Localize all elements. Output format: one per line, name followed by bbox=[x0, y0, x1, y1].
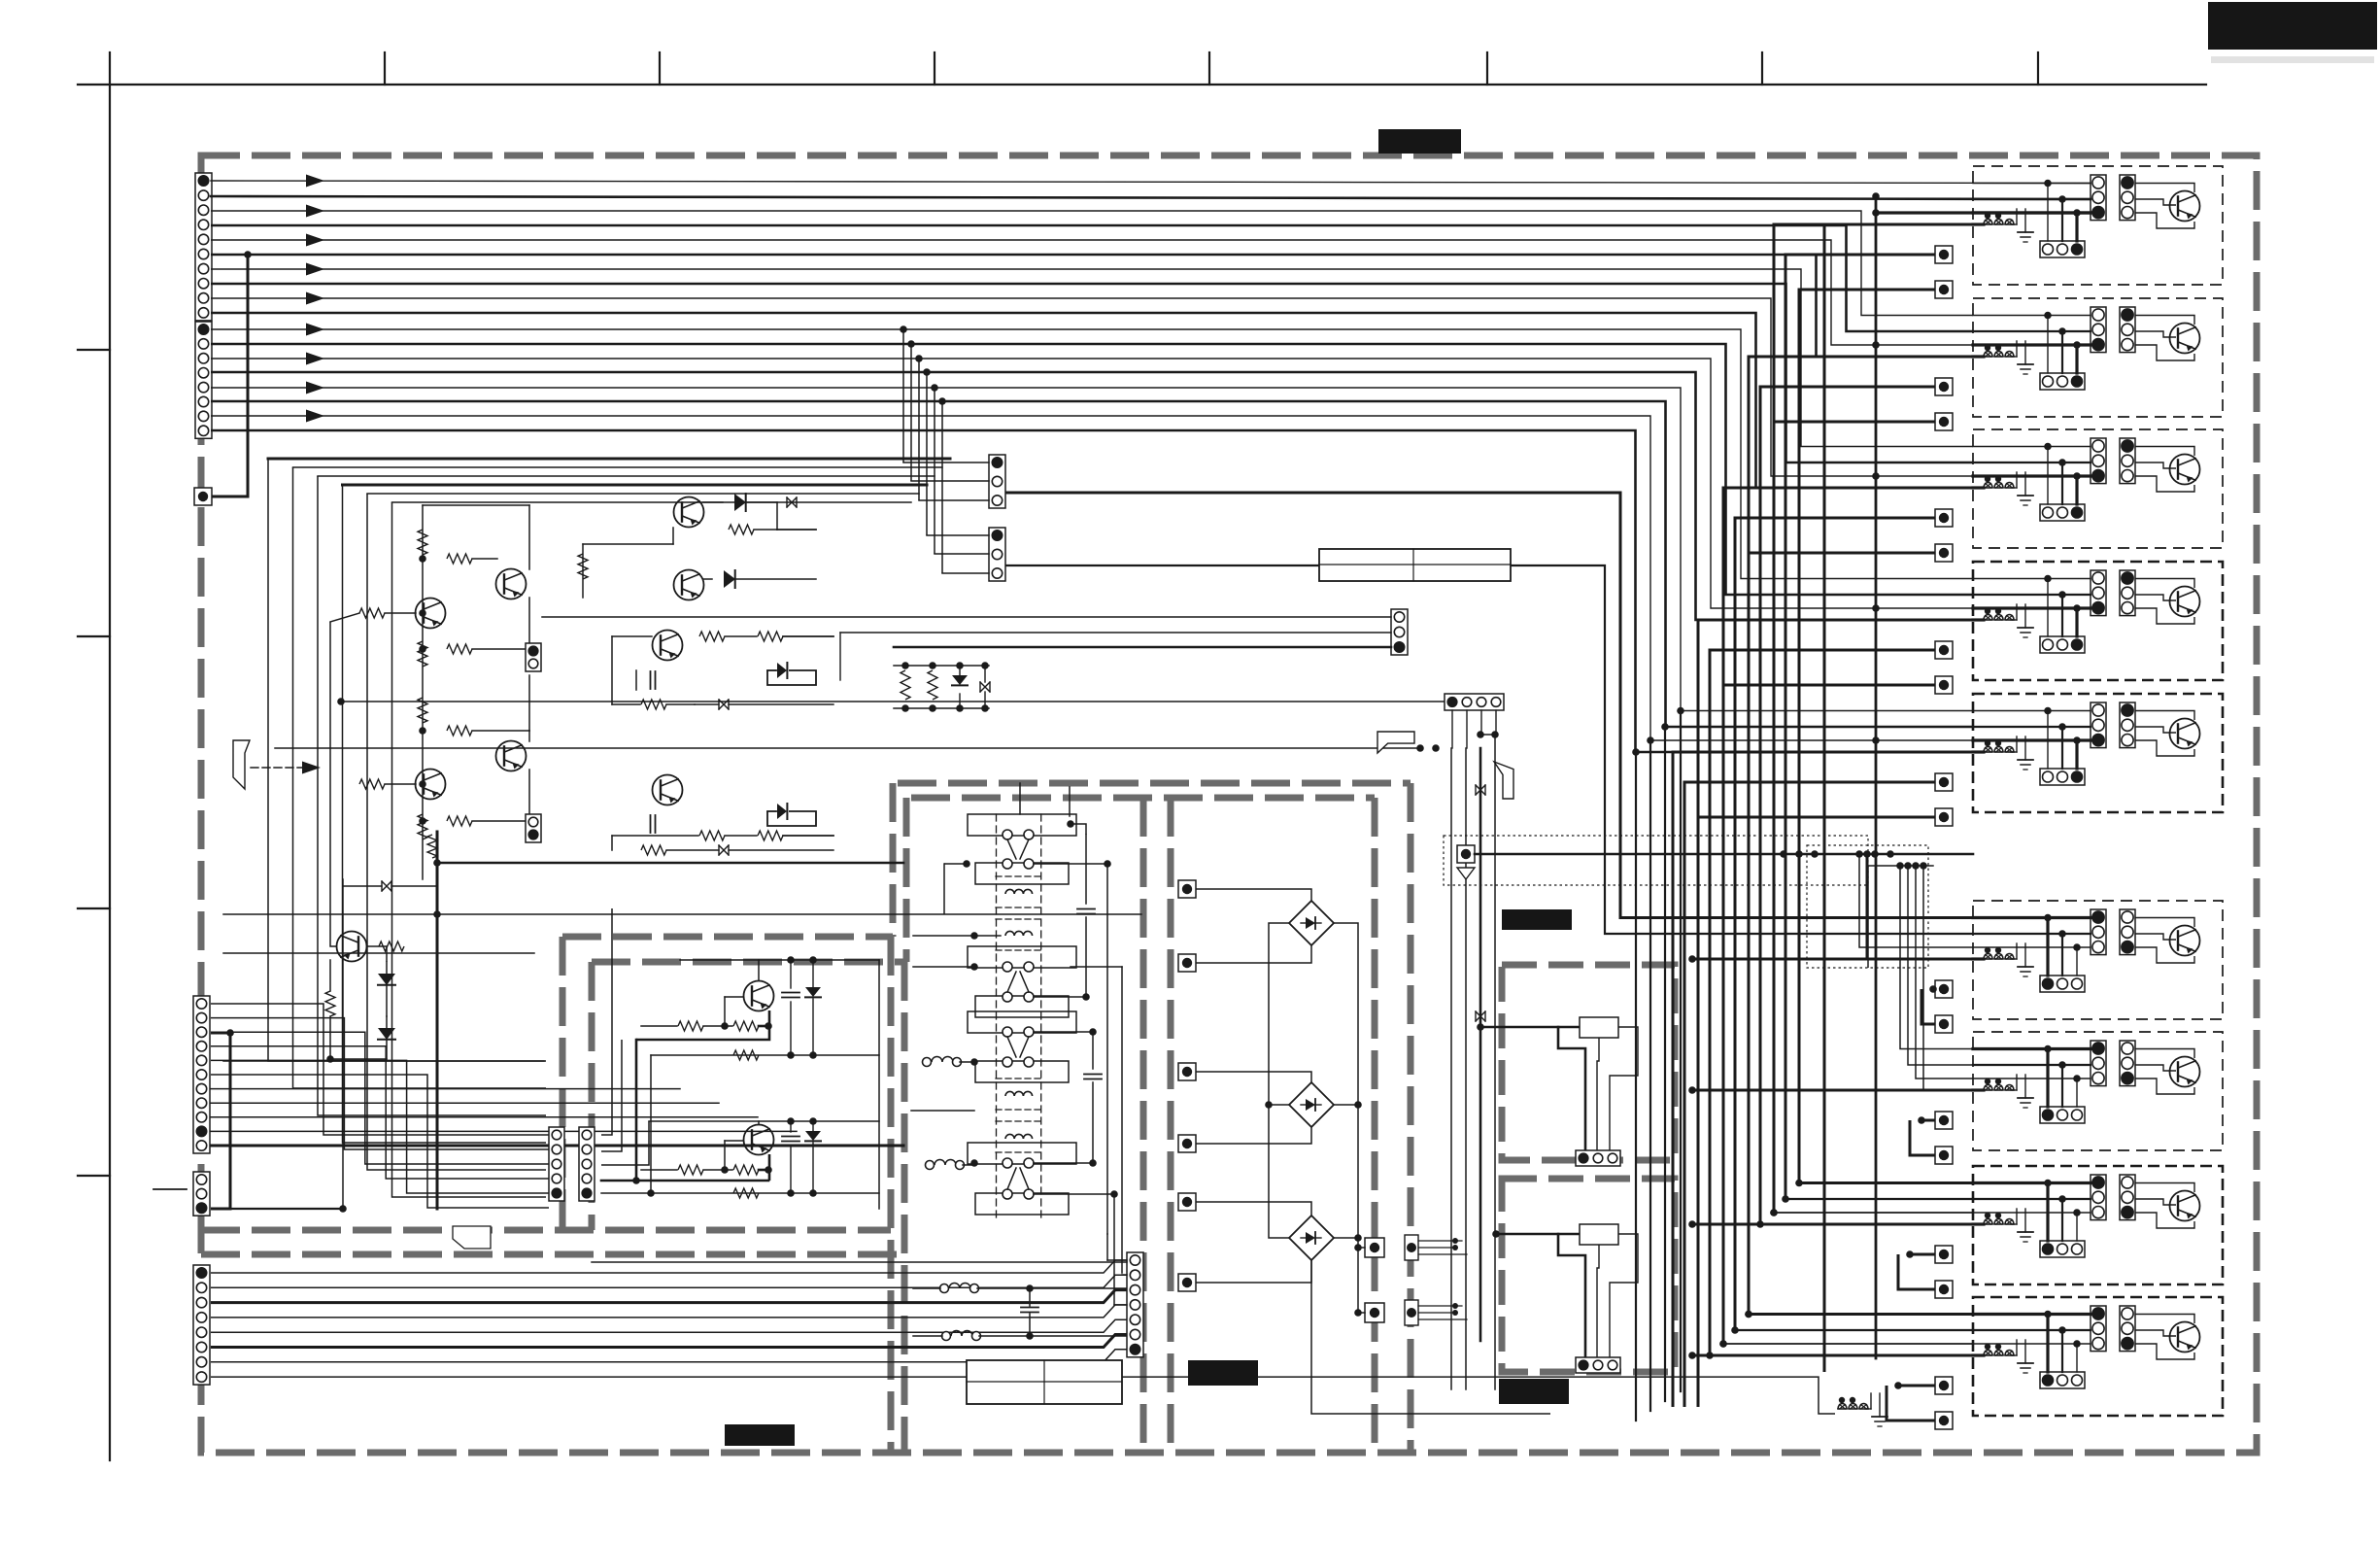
wire bbox=[934, 388, 935, 554]
wire bbox=[1085, 917, 1087, 997]
transistor Q7 bbox=[674, 570, 704, 600]
wire bottom row8 bbox=[211, 1377, 1835, 1414]
wire bbox=[2047, 447, 2049, 505]
node bbox=[433, 910, 441, 918]
node bbox=[970, 1159, 978, 1167]
varistor V3 bbox=[719, 845, 729, 855]
node bbox=[1795, 1180, 1803, 1187]
wire bbox=[767, 670, 816, 685]
node bbox=[2058, 1326, 2066, 1334]
connector B4-A bbox=[2091, 570, 2106, 616]
wire bbox=[230, 1208, 343, 1210]
node bbox=[1632, 748, 1640, 756]
wire main bus x=1931 bbox=[1875, 196, 1878, 1358]
wire bbox=[1610, 1234, 1638, 1360]
wire bbox=[759, 1169, 768, 1172]
connector CN10 2pin bbox=[526, 814, 541, 842]
transistor Q4 bbox=[416, 770, 446, 800]
wire rail bbox=[680, 959, 879, 961]
wire bbox=[1973, 486, 1984, 489]
wire CN3 row3 bbox=[211, 1032, 549, 1164]
wire bbox=[1196, 1127, 1311, 1144]
wire vertical thick bbox=[1479, 748, 1482, 1341]
wire CN3 row4 bbox=[211, 1046, 549, 1179]
wire bbox=[1069, 787, 1071, 816]
node bbox=[419, 780, 426, 788]
wire feed block bbox=[1749, 1313, 1973, 1316]
node bbox=[1918, 1116, 1925, 1124]
power transistor Q-B3 bbox=[2170, 455, 2200, 485]
wire bus row14 staircase bbox=[211, 372, 1973, 620]
wire bbox=[318, 475, 935, 477]
connector sq B7-1 bbox=[1935, 1112, 1953, 1129]
node bbox=[339, 1205, 347, 1213]
wire bbox=[385, 783, 416, 785]
wire gnd feed bbox=[1692, 1089, 1984, 1092]
wire bbox=[2061, 934, 2063, 976]
wire bbox=[913, 1335, 942, 1337]
node bbox=[1782, 1195, 1789, 1203]
wire drop to block7 bbox=[1900, 866, 1973, 1049]
connector B8-C bbox=[2040, 1241, 2085, 1257]
wire bbox=[528, 598, 530, 649]
node bbox=[1067, 820, 1074, 828]
node bbox=[433, 859, 441, 867]
diode D5 bbox=[777, 663, 787, 678]
wire long bus bbox=[1680, 711, 1682, 1392]
wire sq link a bbox=[1735, 518, 1935, 1330]
node bbox=[419, 645, 426, 653]
connector B5-B bbox=[2120, 702, 2135, 748]
ferrite beads B3 bbox=[1984, 483, 1992, 489]
transistor Q2 bbox=[416, 599, 446, 629]
wire bbox=[1973, 183, 2091, 185]
resistor R7 bbox=[447, 726, 472, 736]
connector sq B6-2 bbox=[1935, 1015, 1953, 1033]
wire bbox=[2135, 1199, 2176, 1205]
wire bbox=[1973, 946, 2091, 948]
wire sq link b bbox=[1774, 422, 1935, 1213]
node bbox=[2058, 930, 2066, 938]
node bbox=[1647, 736, 1654, 744]
node bbox=[1855, 850, 1863, 858]
node bbox=[1839, 1397, 1845, 1403]
wire bbox=[1495, 710, 1497, 735]
connector B2-C bbox=[2040, 373, 2085, 390]
wire long bus bbox=[1649, 740, 1651, 1411]
cap C7 bbox=[782, 1136, 799, 1138]
wire bbox=[2046, 918, 2049, 976]
node bbox=[1745, 1311, 1752, 1318]
connector B7-B bbox=[2120, 1041, 2135, 1086]
connector 3pin bbox=[1576, 1357, 1620, 1373]
left ruler tick 3 bbox=[78, 907, 110, 909]
wire bbox=[528, 770, 530, 821]
wire bbox=[1973, 315, 2091, 317]
label bottom-left box bbox=[725, 1424, 795, 1446]
wire bbox=[330, 613, 359, 622]
left ruler tick 1 bbox=[78, 349, 110, 351]
node bbox=[970, 1058, 978, 1066]
wire feed box A bbox=[1480, 1026, 1558, 1029]
transistor Q8 bbox=[653, 631, 683, 661]
connector sq R1 bbox=[1178, 880, 1196, 898]
wire bbox=[2135, 934, 2176, 940]
transistor Q1 bbox=[496, 569, 527, 599]
wire bbox=[1034, 996, 1086, 998]
connector B5-A bbox=[2091, 702, 2106, 748]
wire bbox=[472, 730, 529, 732]
power transistor Q-B6 bbox=[2170, 926, 2200, 956]
node bbox=[1985, 608, 1990, 614]
wire CN3 row11 bbox=[211, 1145, 903, 1147]
node bbox=[1265, 1101, 1273, 1109]
node bbox=[2058, 591, 2066, 599]
wire sq link b bbox=[1910, 1120, 1935, 1155]
node bbox=[2044, 1180, 2052, 1187]
wire bbox=[343, 885, 382, 887]
wire bbox=[2061, 1199, 2063, 1241]
wire bbox=[1196, 1202, 1311, 1216]
node bbox=[226, 1029, 234, 1037]
resistor R2 bbox=[447, 554, 472, 564]
node bbox=[1354, 1309, 1362, 1317]
inductor FL1 bbox=[923, 1058, 932, 1067]
wire feed block bbox=[1710, 1354, 1973, 1357]
wire bbox=[342, 879, 344, 1209]
power transistor Q-B2 bbox=[2170, 324, 2200, 354]
wire bbox=[1973, 726, 2091, 728]
connector sq B9-1 bbox=[1935, 1377, 1953, 1394]
ground bbox=[2011, 1354, 2017, 1356]
wire sq link a bbox=[1785, 255, 1935, 1199]
wire bbox=[2061, 331, 2063, 373]
connector sq B4-2 bbox=[1935, 676, 1953, 694]
wire from CN8 to block6 bbox=[1005, 565, 1973, 934]
wire bbox=[1973, 1212, 2091, 1214]
wire bbox=[329, 960, 331, 991]
wire bottom row5 bbox=[211, 1319, 1135, 1332]
node bbox=[931, 384, 938, 392]
wire bbox=[2061, 199, 2063, 241]
wire bbox=[759, 1025, 768, 1028]
wire bbox=[1597, 1245, 1599, 1360]
wire bbox=[2135, 711, 2194, 721]
node bbox=[1026, 1332, 1034, 1340]
resistor R27 bbox=[427, 835, 437, 858]
ruler tick 4 bbox=[934, 52, 935, 85]
wire bbox=[635, 670, 637, 690]
node bbox=[787, 1051, 795, 1059]
node bbox=[956, 704, 964, 712]
wire bbox=[472, 558, 497, 560]
wire bbox=[790, 960, 792, 988]
node bbox=[1477, 731, 1484, 738]
connector CN15 4pin bbox=[1445, 694, 1504, 710]
wire sq link b bbox=[1799, 290, 1935, 1183]
wire rail bbox=[651, 1054, 879, 1056]
wire bbox=[2135, 462, 2176, 468]
wire bbox=[2061, 595, 2063, 636]
node bbox=[1089, 1028, 1097, 1036]
wire long bus bbox=[1635, 752, 1637, 1421]
wire bbox=[1610, 1027, 1638, 1153]
outer board dashed box bbox=[201, 155, 2257, 1453]
wire bbox=[2135, 345, 2194, 360]
dotted region A bbox=[1444, 836, 1868, 885]
connector CN12 7pin bbox=[1127, 1252, 1143, 1357]
node bbox=[721, 1022, 729, 1030]
wire bridge right bus bbox=[1334, 923, 1358, 1313]
node bbox=[809, 1051, 817, 1059]
speaker block box B7 bbox=[1973, 1032, 2223, 1150]
ruler tick 6 bbox=[1486, 52, 1488, 85]
wire bbox=[636, 1010, 769, 1040]
wire bbox=[2046, 1315, 2049, 1373]
wire bbox=[423, 504, 529, 506]
node bbox=[2044, 1045, 2052, 1053]
wire bus row9 staircase bbox=[211, 298, 1973, 476]
wire bbox=[601, 1040, 622, 1151]
node bbox=[923, 368, 931, 376]
resistor R24 bbox=[733, 1050, 759, 1060]
node bbox=[647, 1189, 655, 1197]
dashed boundary v x=919 bbox=[890, 783, 897, 937]
wire sq link a bbox=[1760, 387, 1935, 1224]
wire bbox=[2075, 345, 2078, 373]
wire long lower bbox=[592, 1261, 1127, 1263]
wire bbox=[611, 836, 613, 850]
node bbox=[1688, 1220, 1696, 1228]
relay K3 contacts bbox=[968, 1011, 1076, 1033]
connector sq R5 bbox=[1178, 1193, 1196, 1211]
diode D1 bbox=[378, 974, 395, 985]
wire bbox=[963, 1164, 974, 1166]
wire bbox=[1973, 355, 1984, 358]
connector CN6 single pin bbox=[194, 488, 212, 505]
connector B3-C bbox=[2040, 504, 2085, 521]
wire bbox=[641, 1169, 677, 1171]
resistor R13 bbox=[729, 525, 754, 534]
note table T1 bbox=[1319, 549, 1511, 581]
node bbox=[1863, 850, 1871, 858]
connector B9-B bbox=[2120, 1306, 2135, 1352]
node bbox=[1354, 1234, 1362, 1242]
sub box B bbox=[1502, 1179, 1675, 1372]
callout flag F3 bbox=[1494, 762, 1513, 799]
ruler tick 2 bbox=[384, 52, 386, 85]
wire bbox=[223, 913, 1141, 915]
connector CN8 bbox=[989, 528, 1005, 581]
connector B2-B bbox=[2120, 307, 2135, 353]
wire bbox=[1973, 578, 2091, 580]
connector CN9 2pin bbox=[526, 643, 541, 671]
varistor V2 bbox=[719, 700, 729, 709]
ruler tick 7 bbox=[1761, 52, 1763, 85]
wire CN3 row1 bbox=[211, 1004, 549, 1135]
ruler tick 3 bbox=[659, 52, 661, 85]
node bbox=[2044, 914, 2052, 922]
relay K1 contacts bbox=[968, 814, 1076, 836]
transistor Q9 bbox=[653, 775, 683, 805]
relay K3 coil bbox=[1005, 1091, 1014, 1096]
node bbox=[526, 817, 533, 825]
resistor R10 bbox=[447, 816, 472, 826]
node bbox=[2058, 327, 2066, 335]
wire bbox=[767, 669, 776, 671]
left margin dash bbox=[153, 1188, 187, 1190]
node bbox=[2044, 180, 2052, 188]
arrowhead bbox=[306, 353, 324, 365]
node bbox=[1985, 345, 1990, 351]
resistor R1 bbox=[418, 530, 427, 555]
wire bottom row6 bbox=[211, 1335, 1135, 1348]
connector sq B1-2 bbox=[1935, 281, 1953, 298]
wire sq link g bbox=[1749, 357, 1984, 1315]
wire bbox=[1973, 343, 2091, 346]
sub box A bbox=[1502, 965, 1675, 1160]
wire bbox=[1973, 750, 1984, 753]
wire bottom row2 bbox=[211, 1275, 1135, 1287]
wire bbox=[1311, 1260, 1550, 1414]
varistor V5 bbox=[382, 881, 391, 891]
connector B9-C bbox=[2040, 1372, 2085, 1388]
wire feed block bbox=[1774, 1212, 1973, 1214]
node bbox=[1731, 1326, 1739, 1334]
node bbox=[1354, 1101, 1362, 1109]
wire bbox=[1973, 1198, 2091, 1200]
ferrite beads B2 bbox=[1984, 352, 1992, 358]
arrowhead bbox=[306, 234, 324, 247]
node bbox=[1985, 213, 1990, 219]
wire bbox=[1973, 330, 2091, 332]
node bbox=[1887, 850, 1894, 858]
wire bbox=[1558, 1234, 1585, 1360]
wire bbox=[2135, 476, 2194, 492]
wire bbox=[268, 458, 950, 461]
connector sq R6 bbox=[1178, 1274, 1196, 1291]
border ruler top line bbox=[78, 84, 2206, 86]
wire bus row17 staircase bbox=[211, 416, 1973, 740]
connector B3-B bbox=[2120, 438, 2135, 484]
wire bbox=[2061, 1065, 2063, 1107]
node bbox=[2058, 723, 2066, 731]
flag F4 bbox=[453, 1226, 491, 1249]
wire bbox=[2135, 1213, 2194, 1228]
resistor R21 bbox=[928, 670, 937, 700]
wire bus row15 staircase bbox=[211, 388, 1973, 711]
connector sq R7 bbox=[1365, 1238, 1384, 1257]
wire bbox=[1334, 1104, 1358, 1106]
label PROTECTION top bbox=[1378, 129, 1461, 154]
node bbox=[765, 1022, 772, 1030]
dashed boundary h y=990 bbox=[592, 959, 906, 966]
power transistor Q-B4 bbox=[2170, 587, 2200, 617]
node bbox=[900, 325, 907, 333]
wire bbox=[1034, 863, 1107, 865]
bridge BR3 bbox=[1289, 1216, 1334, 1260]
wire CN4 jumper bbox=[211, 1033, 230, 1209]
wire bbox=[223, 1060, 544, 1062]
resistor R9 bbox=[418, 814, 427, 839]
wire bbox=[1973, 1047, 2091, 1050]
wire bbox=[2135, 1049, 2194, 1059]
wire bbox=[1034, 1031, 1093, 1033]
wire bbox=[1034, 1193, 1114, 1195]
wire from CN7 to block6 bbox=[1005, 493, 1973, 918]
wire bbox=[2135, 331, 2176, 337]
node bbox=[929, 662, 936, 669]
connector CN13 5pin bbox=[549, 1127, 564, 1201]
wire feed block bbox=[1723, 1343, 1973, 1345]
wire bottom row3 bbox=[211, 1290, 1135, 1303]
wire bbox=[2047, 579, 2049, 637]
node bbox=[419, 609, 426, 617]
wire bbox=[754, 529, 777, 531]
ground bbox=[2011, 223, 2017, 225]
wire bbox=[1358, 1247, 1365, 1249]
wire bbox=[2135, 595, 2176, 600]
left ruler tick 2 bbox=[78, 635, 110, 637]
ruler tick 8 bbox=[2037, 52, 2039, 85]
diode D7 bbox=[952, 675, 968, 685]
wire block1 l4 bus bbox=[1824, 224, 1984, 1372]
inductor FL2 bbox=[926, 1161, 935, 1170]
varistor V7 bbox=[1476, 1011, 1485, 1021]
ruler tick 1 bbox=[109, 52, 111, 85]
wire bus row5 staircase bbox=[211, 240, 1973, 345]
node bbox=[901, 662, 909, 669]
connector B2-A bbox=[2091, 307, 2106, 353]
wire thick vertical bbox=[436, 832, 439, 1209]
wire bbox=[2135, 1183, 2194, 1193]
cap C6 bbox=[782, 992, 799, 994]
wire bbox=[2135, 184, 2194, 193]
node bbox=[1688, 1352, 1696, 1359]
relay K2 contacts bbox=[968, 946, 1076, 968]
resistor R8 bbox=[359, 779, 385, 789]
wire sq link g bbox=[1723, 488, 1984, 1344]
connector B8-A bbox=[2091, 1175, 2106, 1220]
connector B1-C bbox=[2040, 241, 2085, 257]
resistor R12 bbox=[379, 942, 404, 951]
callout flag F2 bbox=[1377, 732, 1414, 753]
wire bbox=[1019, 783, 1021, 814]
resistor R6 bbox=[418, 698, 427, 723]
arrowhead bbox=[306, 324, 324, 336]
wire block7 source bbox=[1868, 865, 1933, 867]
wire bbox=[330, 622, 337, 946]
node bbox=[2058, 1195, 2066, 1203]
wire bbox=[2075, 740, 2078, 769]
ground bbox=[2011, 1089, 2017, 1091]
connector sq B1-1 bbox=[1935, 246, 1953, 263]
wire bbox=[1973, 1222, 1984, 1225]
wire bus row7 staircase bbox=[211, 269, 1973, 447]
varistor V6 bbox=[1476, 785, 1485, 795]
node bbox=[809, 1117, 817, 1125]
wire bbox=[1973, 462, 2091, 463]
connector sq B4-1 bbox=[1935, 641, 1953, 659]
node bbox=[2044, 443, 2052, 451]
wire bbox=[212, 255, 248, 497]
wire bbox=[1466, 710, 1468, 748]
wire sq link b bbox=[1921, 989, 1935, 1024]
resistor R3 bbox=[359, 608, 385, 618]
node bbox=[1719, 1340, 1727, 1348]
ground bbox=[1865, 1408, 1871, 1410]
dashed boundary v x=931 relay box inner left bbox=[901, 962, 908, 1450]
